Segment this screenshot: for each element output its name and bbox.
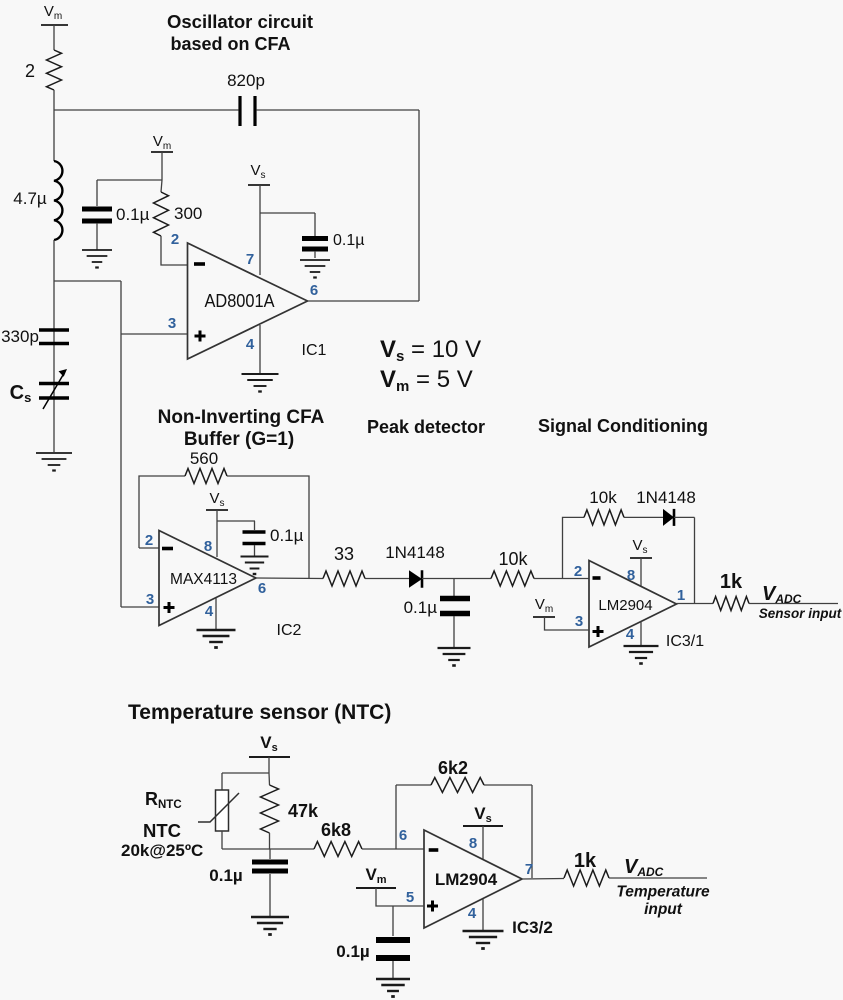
svg-text:820p: 820p bbox=[227, 71, 265, 90]
wire: 560 feedback loop left bbox=[139, 476, 185, 548]
label Sensor input bbox=[759, 606, 842, 621]
pin 2 label (IC1) bbox=[171, 231, 179, 248]
svg-text:0.1µ: 0.1µ bbox=[116, 205, 150, 224]
resistor R6 10k (feedback) bbox=[584, 488, 624, 525]
svg-text:330p: 330p bbox=[1, 327, 39, 346]
wire: 6k2 to output node bbox=[484, 785, 532, 878]
svg-text:Sensor input: Sensor input bbox=[759, 606, 842, 621]
power Vs label (IC3/2) bbox=[463, 804, 503, 826]
label IC3/2 bbox=[512, 918, 553, 937]
pin 6 label (IC1) bbox=[310, 282, 318, 299]
svg-text:6k2: 6k2 bbox=[438, 758, 468, 778]
wire: Vs to IC2 pin8 bbox=[216, 510, 218, 557]
op-amp U2 MAX4113 bbox=[159, 531, 256, 626]
title: Signal Conditioning bbox=[538, 416, 708, 436]
wire: Vm node to decoupling cap bbox=[97, 180, 162, 206]
capacitor C8 0.1u (Vm filter) bbox=[336, 940, 410, 961]
wire: 47k to divider bottom node bbox=[269, 833, 271, 849]
svg-text:2: 2 bbox=[145, 532, 153, 549]
wire: C8 to ground bbox=[392, 961, 394, 979]
wire: IC2 pin2 -input bbox=[139, 547, 159, 549]
svg-text:input: input bbox=[644, 901, 683, 918]
wire: Vs to IC3/1 pin8 bbox=[640, 558, 642, 586]
svg-text:Signal Conditioning: Signal Conditioning bbox=[538, 416, 708, 436]
title: Peak detector bbox=[367, 417, 485, 437]
pin 4 label (IC2) bbox=[205, 603, 214, 620]
wire: long vertical rail to MAX4113 +input bbox=[120, 281, 122, 607]
wire: C4 to ground bbox=[254, 545, 256, 556]
wire: D1 to peak node to R10k bbox=[422, 578, 491, 580]
wire: 6k8 to IC3/2 pin6 bbox=[362, 848, 424, 850]
wire: C7 to ground bbox=[269, 874, 271, 917]
wire: IC3/1 output bbox=[677, 603, 714, 605]
label IC3/1 bbox=[666, 633, 704, 650]
power Vm label (IC3/2 ref) bbox=[356, 865, 396, 888]
wire: top feedback rail left segment bbox=[54, 109, 238, 111]
ground (C4) bbox=[241, 557, 269, 575]
wire: R5 to IC3/1 pin2 bbox=[534, 578, 589, 580]
wire: inductor to ground (tank branch) bbox=[53, 240, 55, 452]
inductor L1 4.7u bbox=[13, 161, 62, 240]
label Temperature input bbox=[616, 884, 710, 919]
svg-text:4: 4 bbox=[468, 905, 477, 922]
svg-text:47k: 47k bbox=[288, 801, 319, 821]
pin 6 label (IC3/2) bbox=[399, 827, 407, 844]
capacitor C5 0.1u (peak hold) bbox=[404, 598, 470, 617]
svg-text:33: 33 bbox=[334, 544, 354, 564]
svg-text:3: 3 bbox=[575, 613, 583, 630]
svg-text:2: 2 bbox=[25, 61, 35, 81]
svg-text:1: 1 bbox=[677, 587, 685, 604]
svg-text:IC3/1: IC3/1 bbox=[666, 633, 704, 650]
svg-text:IC1: IC1 bbox=[302, 342, 327, 359]
thermistor R_NTC bbox=[198, 790, 239, 831]
pin 5 label (IC3/2) bbox=[406, 889, 414, 906]
ground (C8) bbox=[376, 979, 410, 997]
capacitor 820p bbox=[227, 71, 265, 126]
svg-text:1k: 1k bbox=[720, 571, 743, 593]
pin 3 label (IC3/1) bbox=[575, 613, 583, 630]
wire: R1 to node A and inductor bbox=[53, 90, 55, 161]
pin 4 label (IC3/1) bbox=[626, 626, 635, 643]
svg-text:AD8001A: AD8001A bbox=[205, 291, 275, 311]
wire: 560 feedback loop right bbox=[227, 476, 309, 578]
pin 1 label (IC3/1) bbox=[677, 587, 685, 604]
op-amp U3 LM2904 (IC3/1) bbox=[589, 561, 677, 648]
wire: D2 to feedback right vertical bbox=[674, 517, 695, 603]
label 20k@25C bbox=[121, 841, 203, 860]
legend Vs = 10 V bbox=[380, 336, 481, 365]
wire: feedback rail right vertical down to IC1 output bbox=[418, 110, 420, 301]
svg-text:1k: 1k bbox=[574, 850, 597, 872]
resistor R7 1k bbox=[713, 571, 749, 611]
pin 7 label (IC3/2) bbox=[525, 861, 533, 878]
pin 2 label (IC3/1) bbox=[574, 563, 582, 580]
title: Oscillator circuit based on CFA bbox=[167, 11, 313, 54]
svg-text:6: 6 bbox=[258, 580, 266, 597]
svg-text:4: 4 bbox=[626, 626, 635, 643]
svg-text:LM2904: LM2904 bbox=[435, 870, 498, 889]
ground (C5) bbox=[438, 648, 471, 666]
svg-text:8: 8 bbox=[469, 835, 477, 852]
wire: IC3/1 feedback left bbox=[563, 517, 585, 578]
svg-text:IC2: IC2 bbox=[277, 622, 302, 639]
pin 2 label (IC2) bbox=[145, 532, 153, 549]
svg-text:Vs = 10 V: Vs = 10 V bbox=[380, 336, 481, 365]
label VADC (temperature) bbox=[624, 856, 664, 879]
wire: node tap to buffer rail bbox=[54, 280, 121, 282]
svg-text:7: 7 bbox=[525, 861, 533, 878]
resistor R2 300 bbox=[154, 180, 203, 236]
wire: Vs node to C3 bbox=[260, 213, 315, 237]
svg-text:3: 3 bbox=[146, 591, 154, 608]
variable capacitor Cs bbox=[10, 369, 69, 409]
capacitor 330p bbox=[1, 327, 69, 346]
wire: C3 to ground bbox=[314, 251, 316, 258]
wire: R6 to D2 bbox=[624, 516, 663, 518]
svg-text:3: 3 bbox=[168, 315, 176, 332]
label IC2 bbox=[277, 622, 302, 639]
wire: IC1 output to feedback rail bbox=[308, 300, 420, 302]
capacitor C3 0.1u (Vs decoupling) bbox=[302, 232, 364, 249]
ground (oscillator tank) bbox=[36, 453, 72, 471]
power Vs label (NTC divider) bbox=[249, 733, 290, 757]
ground (C2) bbox=[82, 250, 112, 268]
power Vm label (IC3/1 ref) bbox=[533, 596, 555, 617]
wire: C5 to ground bbox=[453, 616, 455, 648]
wire: Vm node down to C8 bbox=[392, 906, 394, 936]
svg-text:LM2904: LM2904 bbox=[598, 597, 652, 614]
wire: peak node down to C5 bbox=[453, 579, 455, 597]
svg-text:Peak detector: Peak detector bbox=[367, 417, 485, 437]
resistor R1 value 2 bbox=[25, 50, 62, 90]
wire: Vs to IC3/2 pin8 bbox=[482, 826, 484, 859]
svg-text:6: 6 bbox=[399, 827, 407, 844]
legend Vm = 5 V bbox=[380, 366, 473, 395]
wire: NTC to divider bottom node bbox=[222, 831, 270, 849]
svg-text:4.7µ: 4.7µ bbox=[13, 189, 47, 208]
wire: IC3/1 pin4 to ground bbox=[640, 621, 642, 646]
svg-text:Vm = 5 V: Vm = 5 V bbox=[380, 366, 473, 395]
capacitor C7 0.1u (divider filter) bbox=[209, 862, 288, 885]
label NTC bbox=[143, 820, 181, 841]
wire: IC2 output to R33 bbox=[256, 577, 323, 580]
ground (IC3/2 pin4) bbox=[463, 931, 504, 949]
svg-text:5: 5 bbox=[406, 889, 414, 906]
svg-text:4: 4 bbox=[246, 336, 255, 353]
ground (C3) bbox=[300, 260, 330, 278]
pin 4 label (IC3/2) bbox=[468, 905, 477, 922]
pin 6 label (IC2) bbox=[258, 580, 266, 597]
ground (IC3/1 pin4) bbox=[624, 646, 659, 664]
label VADC (sensor) bbox=[762, 583, 802, 606]
ground (IC2 pin4) bbox=[197, 630, 236, 648]
wire: R33 to D1 bbox=[365, 578, 409, 580]
svg-text:Buffer (G=1): Buffer (G=1) bbox=[184, 429, 294, 450]
svg-text:20k@25ºC: 20k@25ºC bbox=[121, 841, 203, 860]
pin 7 label (IC1) bbox=[246, 251, 254, 268]
svg-text:based on CFA: based on CFA bbox=[170, 34, 290, 54]
diode D1 1N4148 bbox=[385, 543, 445, 588]
svg-text:0.1µ: 0.1µ bbox=[333, 232, 364, 249]
resistor R10 6k2 bbox=[431, 758, 484, 793]
wire: Vm to IC3/1 pin3 bbox=[545, 617, 590, 630]
pin 8 label (IC3/1) bbox=[627, 567, 635, 584]
label R_NTC bbox=[145, 789, 182, 811]
svg-text:Oscillator circuit: Oscillator circuit bbox=[167, 11, 313, 32]
wire: IC1 pin4 to ground bbox=[259, 325, 261, 373]
wire: IC2 pin3 +input bbox=[121, 606, 159, 608]
svg-text:6: 6 bbox=[310, 282, 318, 299]
resistor R4 33 bbox=[323, 544, 365, 586]
wire: Vs node to C4 bbox=[217, 521, 255, 530]
pin 8 label (IC2) bbox=[204, 538, 212, 555]
wire: rail to IC1 pin3 +input bbox=[121, 333, 187, 335]
pin 3 label (IC1) bbox=[168, 315, 176, 332]
power Vs label (IC2 supply) bbox=[206, 490, 228, 510]
wire: IC3/2 pin4 to ground bbox=[482, 899, 484, 931]
label IC1 bbox=[302, 342, 327, 359]
wire: R7 to VADC sensor output bbox=[749, 603, 838, 605]
resistor R3 560 bbox=[185, 449, 227, 484]
pin 3 label (IC2) bbox=[146, 591, 154, 608]
diode D2 1N4148 bbox=[636, 488, 696, 526]
power rail Vm label (top left) bbox=[41, 3, 68, 50]
svg-text:Temperature sensor (NTC): Temperature sensor (NTC) bbox=[128, 701, 391, 724]
capacitor C2 0.1u (Vm decoupling) bbox=[82, 205, 150, 224]
svg-text:IC3/2: IC3/2 bbox=[512, 918, 553, 937]
wire: R2 to IC1 pin2 bbox=[161, 236, 187, 265]
ground (IC1 pin4) bbox=[242, 374, 279, 392]
svg-text:300: 300 bbox=[174, 204, 202, 223]
svg-text:4: 4 bbox=[205, 603, 214, 620]
svg-text:MAX4113: MAX4113 bbox=[170, 571, 237, 588]
wire: Vm to IC3/2 pin5 bbox=[376, 888, 424, 906]
svg-text:0.1µ: 0.1µ bbox=[209, 866, 242, 885]
ground (C7) bbox=[251, 917, 289, 935]
wire: divider top node bbox=[222, 773, 269, 790]
svg-text:2: 2 bbox=[574, 563, 582, 580]
wire: IC2 pin4 to ground bbox=[215, 598, 217, 629]
svg-text:Non-Inverting CFA: Non-Inverting CFA bbox=[158, 407, 325, 428]
resistor R9 6k8 bbox=[314, 820, 362, 857]
title: Non-Inverting CFA Buffer (G=1) bbox=[158, 407, 325, 450]
svg-text:10k: 10k bbox=[589, 488, 617, 507]
power Vm label (IC1 bias) bbox=[151, 133, 173, 180]
wire: divider node down to C7 bbox=[269, 849, 271, 859]
svg-text:NTC: NTC bbox=[143, 820, 181, 841]
svg-text:560: 560 bbox=[190, 449, 218, 468]
wire: divider node to R 6k8 bbox=[270, 848, 314, 850]
pin 4 label (IC1) bbox=[246, 336, 255, 353]
op-amp U4 LM2904 (IC3/2) bbox=[424, 830, 522, 928]
svg-text:1N4148: 1N4148 bbox=[385, 543, 445, 562]
svg-text:Temperature: Temperature bbox=[616, 884, 710, 901]
svg-text:1N4148: 1N4148 bbox=[636, 488, 696, 507]
wire: R11 to VADC temperature output bbox=[609, 877, 707, 879]
svg-text:0.1µ: 0.1µ bbox=[270, 526, 304, 545]
svg-text:10k: 10k bbox=[498, 549, 528, 569]
resistor R11 1k bbox=[564, 850, 609, 886]
title: Temperature sensor (NTC) bbox=[128, 701, 391, 724]
wire: Vs to IC1 pin7 bbox=[259, 185, 261, 275]
wire: feedback to 6k2 bbox=[396, 784, 431, 786]
power Vs label (IC3/1) bbox=[630, 537, 652, 558]
pin 8 label (IC3/2) bbox=[469, 835, 477, 852]
svg-text:8: 8 bbox=[627, 567, 635, 584]
wire: IC3/2 output bbox=[522, 878, 564, 881]
capacitor C4 0.1u (IC2 decoupling) bbox=[243, 526, 304, 545]
resistor R8 47k bbox=[261, 773, 319, 833]
op-amp U1 AD8001A bbox=[188, 243, 308, 359]
wire: top feedback rail right segment bbox=[257, 109, 419, 111]
svg-text:0.1µ: 0.1µ bbox=[404, 598, 438, 617]
wire: C2 to ground bbox=[96, 223, 98, 250]
svg-text:2: 2 bbox=[171, 231, 179, 248]
resistor R5 10k bbox=[491, 549, 534, 586]
svg-text:6k8: 6k8 bbox=[321, 820, 351, 840]
wire: IC3/2 feedback left vertical bbox=[395, 785, 397, 849]
svg-text:7: 7 bbox=[246, 251, 254, 268]
power Vs label (IC1 supply) bbox=[248, 162, 270, 185]
svg-text:0.1µ: 0.1µ bbox=[336, 942, 369, 961]
wire: Vs to divider node bbox=[268, 757, 270, 773]
